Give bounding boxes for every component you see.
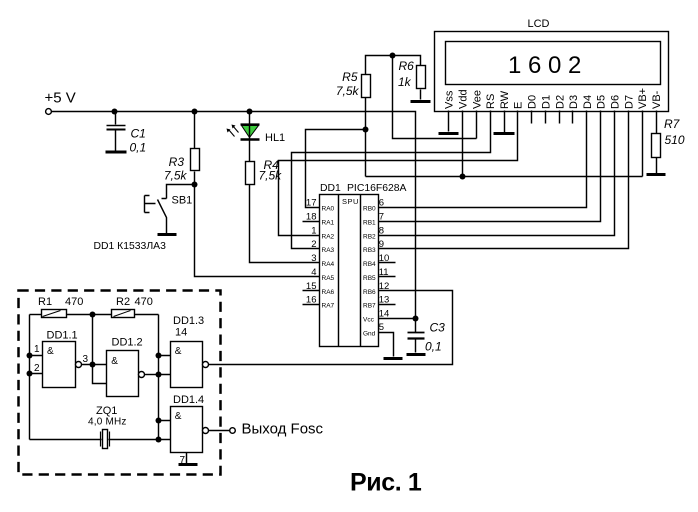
svg-text:7,5k: 7,5k — [336, 84, 360, 98]
switch SB1 — [145, 185, 195, 234]
wire RA7 stub — [303, 304, 320, 306]
wire LCD Vdd stub down to +5V line — [462, 111, 464, 177]
wire LCD Vee stub — [476, 111, 478, 139]
gate DD1.3 — [171, 315, 209, 388]
resistor R3 7,5k — [164, 112, 200, 185]
ground below C3 — [407, 353, 426, 356]
svg-text:6: 6 — [379, 198, 384, 209]
wire DD1.2 output — [145, 374, 159, 376]
svg-text:DD1 К1533ЛА3: DD1 К1533ЛА3 — [94, 241, 167, 252]
svg-text:RB4: RB4 — [363, 261, 376, 268]
wire LCD E to PIC RA2 pin 1 — [279, 111, 518, 236]
svg-text:RB0: RB0 — [363, 206, 376, 213]
wire LCD D1 stub — [545, 111, 547, 124]
svg-text:D3: D3 — [568, 95, 580, 109]
svg-text:R1: R1 — [38, 296, 52, 308]
svg-text:3: 3 — [311, 253, 316, 264]
ground below R7 — [647, 173, 666, 176]
wire R2 right down feedback bus — [158, 315, 160, 440]
svg-text:D5: D5 — [596, 95, 608, 109]
resistor R5 7,5k — [336, 56, 393, 130]
svg-text:Vss: Vss — [444, 90, 456, 109]
svg-text:9: 9 — [379, 239, 384, 250]
svg-text:ZQ1: ZQ1 — [96, 405, 117, 417]
svg-text:RA7: RA7 — [322, 303, 335, 310]
svg-text:Рис. 1: Рис. 1 — [350, 469, 422, 497]
gate DD1.1 — [34, 330, 89, 388]
svg-text:D4: D4 — [582, 95, 594, 109]
node junction DD1.1 input 2 — [27, 371, 33, 377]
node junction R5/R6 top — [390, 53, 396, 59]
svg-text:C3: C3 — [430, 321, 446, 335]
svg-text:RA2: RA2 — [322, 234, 335, 241]
wire DD1.2 second input loop — [93, 365, 107, 384]
svg-text:E: E — [513, 102, 525, 109]
resistor R1 470 — [30, 296, 93, 318]
svg-text:RA4: RA4 — [322, 261, 335, 268]
capacitor C3 — [408, 319, 446, 354]
svg-text:5: 5 — [379, 322, 384, 333]
node +5V terminal — [45, 90, 76, 115]
svg-text:&: & — [175, 411, 182, 422]
svg-text:SB1: SB1 — [172, 195, 193, 207]
svg-text:510: 510 — [665, 133, 685, 147]
svg-text:4,0 MHz: 4,0 MHz — [88, 417, 127, 428]
svg-text:14: 14 — [175, 327, 187, 339]
svg-text:Vcc: Vcc — [363, 317, 375, 324]
svg-text:Vdd: Vdd — [458, 89, 470, 109]
resistor R2 470 — [93, 296, 159, 318]
svg-text:RB1: RB1 — [363, 220, 376, 227]
svg-text:470: 470 — [65, 296, 83, 308]
svg-text:RA1: RA1 — [322, 220, 335, 227]
svg-text:470: 470 — [135, 296, 153, 308]
svg-text:VB-: VB- — [651, 90, 663, 109]
gate DD1.2 — [107, 337, 145, 397]
wire R1/R2 junction down to DD1.1 output node — [92, 315, 94, 365]
svg-text:RS: RS — [485, 94, 497, 109]
wire RB7 stub — [379, 304, 396, 306]
svg-text:LCD: LCD — [528, 18, 550, 30]
wire DD1.1 output to DD1.2 input — [82, 364, 107, 366]
svg-text:D7: D7 — [624, 95, 636, 109]
wire DD1.3 input stubs — [159, 356, 171, 375]
node junction R3/SB1 — [192, 182, 198, 188]
wire +5V rail from terminal to x=415.4 then down to Vcc junction — [52, 112, 416, 319]
wire RB6 pin 12 to oscillator output DD1.3 — [209, 291, 453, 365]
ground below DD1.4 — [179, 463, 198, 466]
svg-text:RW: RW — [499, 90, 511, 109]
svg-text:RB7: RB7 — [363, 303, 376, 310]
svg-text:&: & — [47, 346, 54, 357]
ground below RW — [494, 132, 515, 135]
wire R5 bottom to PIC RA0 pin 17 — [306, 130, 366, 208]
resistor R4 7,5k — [246, 158, 283, 185]
svg-text:R2: R2 — [116, 296, 130, 308]
ground below PIC Gnd — [384, 357, 403, 360]
node junction R5 bottom — [363, 127, 369, 133]
node junction Vcc/C3 — [413, 316, 419, 322]
node junction DD1.1 input 1 — [27, 353, 33, 359]
wire RB4 stub — [379, 262, 396, 264]
svg-text:7,5k: 7,5k — [164, 169, 188, 183]
svg-text:RB5: RB5 — [363, 275, 376, 282]
wire LCD Vss stub — [448, 111, 450, 132]
svg-text:C1: C1 — [131, 127, 146, 141]
svg-text:D6: D6 — [610, 95, 622, 109]
svg-text:3: 3 — [83, 354, 89, 365]
wire LCD D3 stub — [572, 111, 574, 124]
wire Vcc pin 14 — [379, 318, 416, 320]
node Fosc output terminal — [230, 428, 236, 434]
svg-text:0,1: 0,1 — [425, 340, 442, 354]
svg-text:DD1.4: DD1.4 — [173, 394, 204, 406]
svg-text:RA3: RA3 — [322, 247, 335, 254]
wire R5/R6 junction down to LCD Vee — [393, 56, 477, 139]
wire DD1.4 output to Fosc terminal — [209, 430, 231, 432]
resistor R7 510 on LCD VB- — [652, 111, 685, 174]
LCD module outline — [435, 18, 669, 112]
wire LCD D7 to PIC RB3 pin 9 — [379, 111, 629, 249]
wire LCD RS to PIC RA3 pin 2 — [292, 111, 491, 249]
node junction DD1.3 input 1 — [156, 353, 162, 359]
svg-text:R7: R7 — [664, 117, 681, 131]
svg-text:8: 8 — [379, 226, 384, 237]
oscillator section dashed border — [19, 291, 221, 475]
svg-text:1 6 0 2: 1 6 0 2 — [508, 52, 581, 79]
wire R4 bottom to RA4 pin 3 — [250, 185, 320, 263]
wire LCD VB+ stub down to +5V line — [642, 111, 644, 177]
node junction C1 tap — [112, 109, 118, 115]
wire R5 bottom to +5V distribution line (LCD Vdd / VB+) — [366, 130, 643, 177]
svg-text:PIC16F628A: PIC16F628A — [347, 183, 407, 194]
wire LCD D6 to PIC RB2 pin 8 — [379, 111, 615, 236]
svg-text:D1: D1 — [541, 95, 553, 109]
wire LCD RW stub — [504, 111, 506, 133]
wire LCD D5 to PIC RB1 pin 7 — [379, 111, 601, 222]
wire R1 left down input bus — [29, 315, 31, 440]
svg-text:DD1.2: DD1.2 — [112, 337, 143, 349]
svg-text:RA0: RA0 — [322, 206, 335, 213]
svg-text:DD1.3: DD1.3 — [173, 315, 204, 327]
node junction DD1.4 input 1 — [156, 418, 162, 424]
svg-text:2: 2 — [311, 239, 316, 250]
svg-text:D0: D0 — [527, 95, 539, 109]
svg-text:+5 V: +5 V — [45, 90, 76, 107]
svg-text:Vee: Vee — [471, 90, 483, 109]
gate DD1.4 — [171, 394, 209, 453]
svg-text:DD1: DD1 — [320, 183, 341, 194]
svg-text:RB6: RB6 — [363, 289, 376, 296]
wire RA1 stub — [303, 221, 320, 223]
node junction HL1 tap — [247, 109, 253, 115]
capacitor C1 — [107, 112, 147, 155]
svg-text:1k: 1k — [398, 75, 412, 89]
svg-text:RB3: RB3 — [363, 247, 376, 254]
wire Gnd pin 5 — [379, 333, 394, 357]
svg-text:R5: R5 — [342, 70, 358, 84]
svg-text:&: & — [175, 346, 182, 357]
svg-text:RA6: RA6 — [322, 289, 335, 296]
svg-text:VB+: VB+ — [637, 88, 649, 109]
resistor R6 1k — [393, 56, 426, 100]
svg-text:HL1: HL1 — [265, 132, 285, 144]
node junction DD1.2 out — [156, 372, 162, 378]
wire RB5 stub — [379, 276, 396, 278]
wire DD1.1 input stubs — [30, 356, 43, 374]
svg-text:Выход Fosc: Выход Fosc — [242, 421, 324, 438]
svg-text:1: 1 — [34, 344, 40, 355]
op-amp U1 / microcontroller DD1 PIC16F628A body — [320, 183, 407, 347]
svg-text:R6: R6 — [399, 59, 415, 73]
LED HL1 — [227, 112, 286, 162]
ground below R6 — [411, 100, 431, 103]
svg-text:Gnd: Gnd — [363, 331, 376, 338]
LCD display window with 1602 — [446, 42, 661, 85]
svg-text:SPU: SPU — [342, 197, 359, 206]
crystal ZQ1 4,0 MHz — [30, 405, 159, 449]
node junction DD1.4 input 2 / crystal — [156, 437, 162, 443]
wire RA6 stub — [303, 290, 320, 292]
svg-text:1: 1 — [311, 226, 316, 237]
svg-text:&: & — [111, 356, 118, 367]
ground below Vss — [439, 132, 459, 135]
svg-text:RB2: RB2 — [363, 234, 376, 241]
svg-text:7: 7 — [379, 212, 384, 223]
svg-text:D2: D2 — [555, 95, 567, 109]
wire R3 junction down to RA5 pin 4 — [195, 185, 320, 277]
svg-text:0,1: 0,1 — [130, 141, 147, 155]
ground below C1 — [106, 151, 127, 154]
node junction DD1.1 out / R1R2 — [90, 362, 96, 368]
svg-text:R3: R3 — [169, 155, 185, 169]
ground below SB1 — [158, 233, 177, 236]
wire LCD D4 to PIC RB0 pin 6 — [379, 111, 587, 208]
node junction R1/R2 — [90, 312, 96, 318]
svg-text:14: 14 — [379, 308, 390, 319]
node junction LCD Vdd tap — [460, 174, 466, 180]
svg-text:2: 2 — [34, 363, 40, 374]
wire LCD D0 stub — [531, 111, 533, 124]
wire DD1.4 input stubs — [159, 421, 171, 440]
svg-text:RA5: RA5 — [322, 275, 335, 282]
wire DD1.4 ground lead — [186, 453, 188, 464]
wire LCD D2 stub — [559, 111, 561, 124]
svg-text:4: 4 — [311, 267, 316, 278]
svg-text:17: 17 — [306, 198, 317, 209]
svg-text:DD1.1: DD1.1 — [47, 330, 78, 342]
node junction R3 tap — [192, 109, 198, 115]
